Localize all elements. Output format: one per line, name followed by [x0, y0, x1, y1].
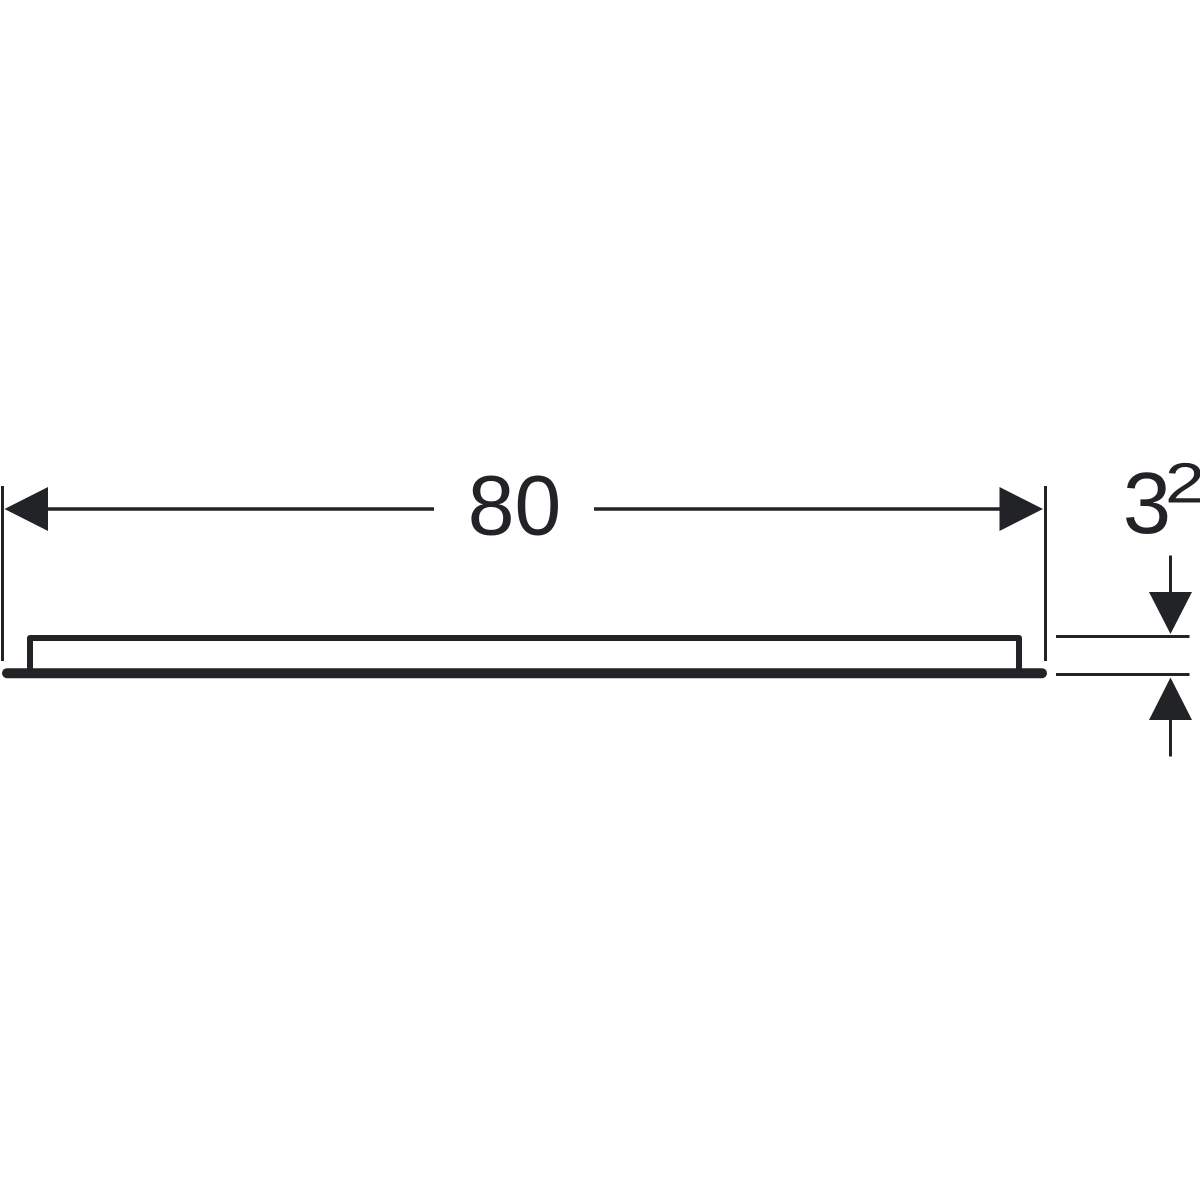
thickness dimension: down arrowhead	[1149, 592, 1192, 634]
thickness dimension: up arrowhead	[1149, 678, 1192, 721]
right arrowhead	[1000, 487, 1044, 531]
thickness dimension: lower reference line	[1056, 673, 1190, 676]
svg-text:3: 3	[1123, 455, 1171, 552]
right extension line	[1044, 486, 1047, 661]
light plate (bottom bar)	[7, 668, 1042, 678]
thickness dimension: upper reference line	[1056, 635, 1190, 638]
svg-text:2: 2	[1165, 452, 1200, 516]
thickness dimension: lower stem	[1169, 720, 1172, 757]
svg-text:80: 80	[468, 459, 561, 553]
left arrowhead	[5, 487, 49, 531]
mirror profile outline (top plate)	[30, 638, 1019, 671]
left extension line	[1, 486, 4, 661]
dimension line 80 right segment	[594, 507, 1004, 511]
dimension line 80 left segment	[40, 507, 434, 511]
thickness dimension: upper stem	[1169, 556, 1172, 595]
